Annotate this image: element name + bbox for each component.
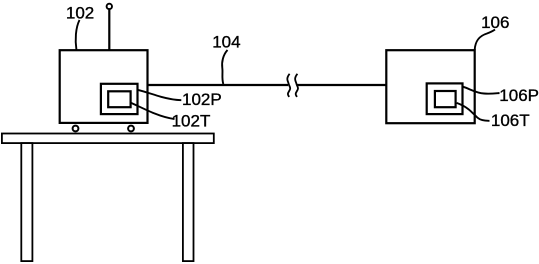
svg-text:102P: 102P — [182, 90, 222, 109]
svg-text:106P: 106P — [499, 86, 539, 105]
svg-text:102T: 102T — [172, 111, 211, 130]
svg-text:106: 106 — [481, 13, 509, 32]
svg-text:102: 102 — [66, 3, 94, 22]
svg-text:106T: 106T — [491, 111, 530, 130]
svg-text:104: 104 — [212, 32, 240, 51]
